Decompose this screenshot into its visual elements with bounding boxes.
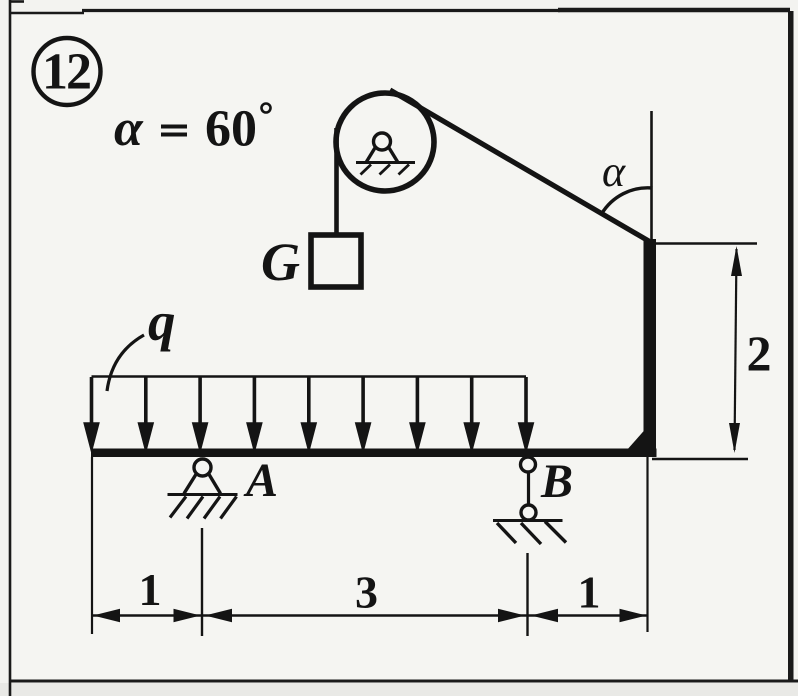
problem number badge circle 12 (34, 38, 101, 105)
frame bottom border (9, 680, 798, 683)
svg-text:q: q (148, 291, 176, 352)
svg-text:α: α (602, 147, 626, 196)
dim2 bottom extension line (652, 458, 748, 461)
frame left border (9, 0, 12, 696)
svg-text:B: B (540, 455, 573, 508)
frame top border (9, 12, 84, 15)
support A hatching (170, 497, 237, 519)
pulley wheel (336, 93, 434, 191)
q leader curve (107, 335, 144, 391)
extension line right end (646, 457, 648, 632)
weight block G (311, 235, 361, 287)
svg-text:1: 1 (139, 564, 162, 615)
beam (91, 449, 657, 458)
rope inclined segment to wall (390, 90, 653, 244)
frame right border (788, 11, 794, 681)
extension line below B (526, 553, 528, 636)
wall post (644, 239, 657, 455)
dim2 vertical line (735, 249, 737, 450)
angle arc (602, 188, 653, 214)
label alpha = 60 deg (114, 100, 271, 158)
support B link (527, 471, 530, 506)
pulley hinge hatching (361, 165, 410, 175)
extension line left end (91, 457, 93, 634)
bottom dimension line (92, 614, 648, 617)
svg-text:1: 1 (578, 567, 601, 618)
dim2 arrows (729, 246, 742, 453)
svg-text:12: 12 (42, 44, 90, 101)
svg-text:α: α (114, 100, 144, 157)
support A pin circle (194, 459, 211, 476)
distributed load arrows (86, 377, 533, 447)
pulley hinge ground line (356, 161, 415, 164)
dim2 top extension line (652, 242, 757, 245)
svg-text:3: 3 (355, 567, 378, 618)
svg-text:2: 2 (747, 325, 772, 381)
corner gusset (626, 425, 649, 451)
support B upper circle (521, 457, 536, 472)
support B lower circle (521, 505, 536, 520)
support B hatching (497, 522, 566, 545)
extension line below A (201, 528, 203, 636)
support A ground line (168, 493, 238, 496)
pulley hinge pivot (366, 133, 398, 163)
rope left vertical segment (334, 128, 339, 236)
support B ground line (493, 519, 563, 522)
dimension arrows bottom (93, 609, 647, 622)
support A triangle legs (184, 474, 221, 494)
bottom margin band (0, 683, 798, 696)
svg-text:60: 60 (205, 101, 257, 158)
svg-text:G: G (261, 232, 300, 292)
vertical reference line for angle (650, 111, 653, 241)
distributed load top line (92, 375, 527, 378)
svg-text:A: A (243, 454, 278, 507)
